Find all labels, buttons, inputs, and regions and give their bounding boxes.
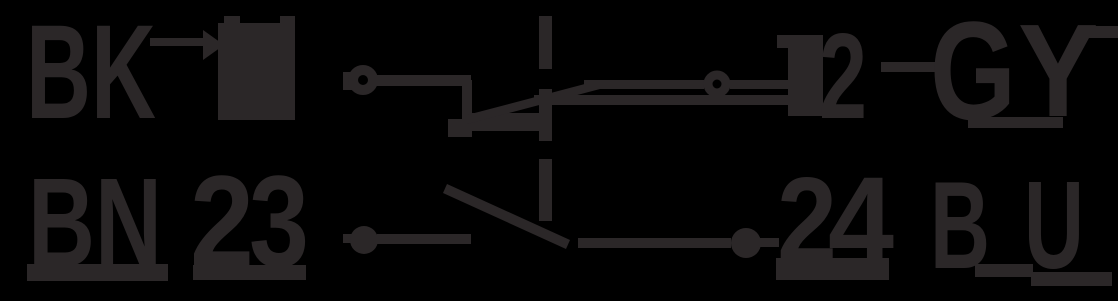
svg-text:2: 2 xyxy=(819,8,867,144)
svg-text:BK: BK xyxy=(26,0,156,147)
